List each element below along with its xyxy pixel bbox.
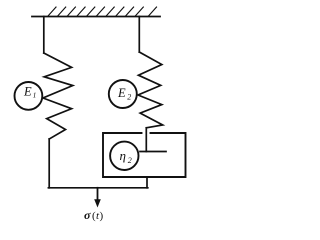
ceiling hatching [48,7,157,16]
svg-text:E: E [23,84,32,98]
wire: dashpot to bottom bar [146,177,148,188]
svg-text:η: η [120,148,126,163]
spring E2 [138,52,163,128]
label circle E1 [15,82,43,110]
stress arrow sigma(t) [97,188,99,200]
spring E1 [43,53,73,139]
svg-text:): ) [100,210,104,222]
wire: right branch top [138,17,140,53]
wire: left branch top [43,17,45,54]
fixed ceiling line [32,16,160,18]
dashpot cylinder box [103,133,186,177]
svg-text:2: 2 [128,156,132,165]
svg-text:1: 1 [33,90,37,99]
label circle E2 [109,80,137,108]
svg-text:2: 2 [127,92,131,101]
wire: bottom bar [48,187,147,189]
label circle eta2 [110,142,138,170]
svg-text:E: E [117,86,126,100]
dashpot piston plate [140,151,166,153]
svg-text:σ: σ [84,208,91,222]
dashpot piston rod [145,128,147,152]
wire: left branch bottom [48,139,50,188]
